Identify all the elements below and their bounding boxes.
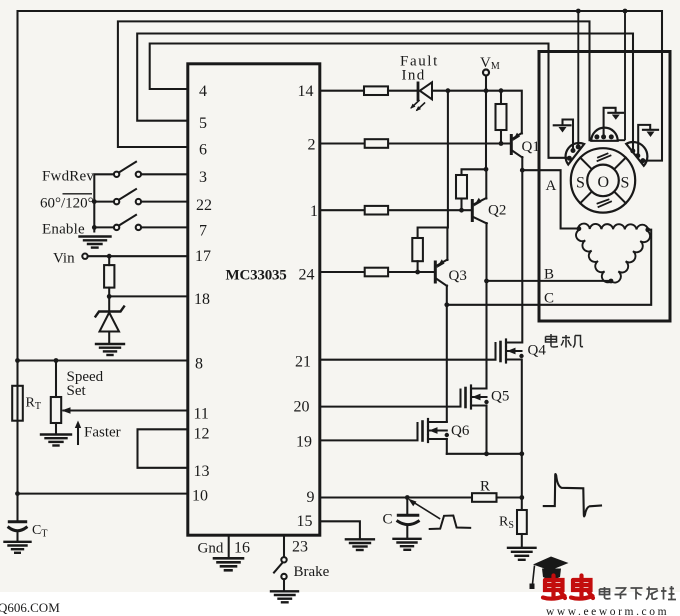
- svg-text:22: 22: [196, 197, 212, 214]
- switch Brake: [274, 557, 287, 590]
- wire Rs to ground: [521, 534, 523, 547]
- svg-text:8: 8: [195, 356, 203, 373]
- ground under CT: [5, 542, 31, 553]
- svg-text:Q1: Q1: [522, 139, 540, 155]
- ground pin 16 Gnd: [214, 558, 243, 570]
- wire pin 16 stub: [228, 536, 230, 558]
- capacitor CT: [9, 522, 26, 531]
- node delta bottom vertex: [609, 279, 614, 284]
- node Q2 feed stub: [484, 167, 489, 172]
- wire Q2 emitter up to VM stub: [485, 169, 487, 198]
- node pin10/RT-CT junction: [15, 491, 20, 496]
- node pot top junction: [54, 358, 59, 363]
- resistor RT: [12, 386, 23, 421]
- svg-text:R: R: [480, 479, 490, 495]
- svg-text:23: 23: [292, 539, 308, 556]
- switch S1 FwdRev: [114, 162, 141, 177]
- transistor Q2 PNP: [472, 198, 487, 224]
- svg-text:4: 4: [199, 83, 207, 100]
- potentiometer Speed Set: [51, 397, 61, 434]
- resistor R: [472, 493, 497, 502]
- resistor R-Q2 base pullup with stub to VM rail: [456, 169, 486, 210]
- wire pin 11 row with arrow into pot: [64, 409, 188, 411]
- wire pin 7 row right segment: [141, 226, 188, 228]
- wire pin 3 row right segment: [141, 173, 188, 175]
- ground under zener: [96, 344, 124, 355]
- wire pin 14 row resistor to LED: [388, 90, 417, 92]
- resistor R1: [365, 206, 388, 215]
- rotor inner circle: [587, 165, 619, 197]
- svg-text:Q606.COM: Q606.COM: [0, 600, 60, 615]
- wire Vref net: pin8 row to left column, top run, right drop: [18, 11, 663, 361]
- rotor outer circle: [571, 148, 635, 212]
- node Vref drop H1: [576, 9, 581, 14]
- svg-text:12: 12: [194, 426, 210, 443]
- node Q5 source-body tie: [484, 400, 488, 404]
- wire pin 23 stub: [283, 536, 285, 558]
- svg-text:16: 16: [234, 540, 250, 557]
- wire pin 21 row to Q4 gate: [320, 343, 496, 360]
- zener diode D1: [96, 296, 125, 343]
- svg-text:19: 19: [296, 434, 312, 451]
- node Q4 source-body tie: [519, 354, 523, 358]
- wire pin 4 nested loop to left hall sensor: [150, 44, 566, 158]
- svg-text:Vin: Vin: [53, 251, 75, 267]
- wire hall supply drop to H2: [624, 11, 626, 140]
- svg-text:13: 13: [194, 463, 210, 480]
- svg-text:Brake: Brake: [294, 564, 330, 580]
- terminal Vin: [82, 254, 87, 259]
- node phase B: [484, 279, 489, 284]
- wire Q1 collector down to phase A and Q4 drain: [521, 157, 523, 343]
- capacitor C timing on pin9 node: [398, 498, 419, 539]
- svg-text:7: 7: [199, 223, 207, 240]
- svg-text:24: 24: [299, 267, 315, 284]
- node Q2 pullup bottom: [459, 208, 464, 213]
- hall sensor H2 pins: [594, 134, 613, 139]
- svg-text:3: 3: [199, 169, 207, 186]
- wire hall supply drop to H1: [577, 11, 579, 147]
- svg-text:A: A: [546, 178, 557, 194]
- svg-text:Q5: Q5: [491, 389, 509, 405]
- terminal VM: [483, 70, 489, 76]
- wire pin 2 row: [320, 142, 510, 144]
- wire pin 6 nested loop to middle hall sensor: [118, 21, 590, 147]
- rotor N pole mark top: [598, 154, 611, 162]
- node pin9 capacitor tap: [405, 495, 410, 500]
- wire VM terminal down through row14 to Q2 feed stub: [485, 76, 487, 170]
- transistor Q3 PNP: [435, 259, 447, 286]
- svg-text:S: S: [576, 175, 585, 192]
- hall sensor H1 pins: [567, 144, 581, 160]
- wire VM rail row 14 LED to Q1 emitter corner: [432, 91, 522, 134]
- svg-text:www.eeworm.com: www.eeworm.com: [546, 606, 669, 616]
- resistor R-Q3 base pullup: [412, 238, 423, 272]
- svg-text:C: C: [383, 512, 393, 528]
- ground under switches: [80, 237, 111, 248]
- text labels: [192, 83, 318, 557]
- wire Q4 source down to sense rail and Rs: [521, 360, 523, 511]
- wire pin 14 row segment IC to resistor: [320, 90, 364, 92]
- arrow pointing to pin9 node: [408, 499, 440, 519]
- wire phase B from Q2/Q5 node to delta: [487, 280, 612, 282]
- wire pin 18 row: [109, 295, 188, 297]
- node phase A: [520, 168, 525, 173]
- svg-text:18: 18: [194, 291, 210, 308]
- resistor R-Q1 base pullup: [496, 91, 507, 144]
- hall sensor H3 right D-shape: [626, 142, 647, 166]
- wire pin 7 row left stub: [94, 226, 114, 228]
- wire Q3 emitter up to feed column: [446, 228, 448, 261]
- svg-text:2: 2: [308, 137, 316, 154]
- svg-text:Gnd: Gnd: [198, 541, 224, 557]
- logo 电子下载站 text: [600, 586, 677, 600]
- svg-text:20: 20: [294, 399, 310, 416]
- rotor quadrant spokes: [580, 158, 626, 204]
- wire pin 9 row: [320, 496, 472, 498]
- ground under Brake switch: [271, 591, 298, 602]
- IC U1 MC33035 body: [188, 64, 320, 535]
- wire phase C from Q3/Q6 node to delta: [447, 230, 651, 305]
- waveform trapezoid: [430, 516, 471, 530]
- svg-text:Faster: Faster: [84, 425, 121, 441]
- MOSFET Q4: [501, 340, 522, 363]
- resistor R-vin vertical: [104, 256, 114, 296]
- ground under capacitor C: [394, 539, 421, 550]
- wire pin 17 row: [88, 255, 188, 257]
- wire source sense rail: [447, 453, 522, 455]
- wire R to Rs node: [497, 496, 522, 498]
- svg-text:C: C: [544, 291, 554, 307]
- svg-text:60°/120°: 60°/120°: [40, 196, 94, 212]
- switch S2 60/120: [114, 189, 141, 204]
- node Q3 pullup bottom: [415, 270, 420, 275]
- wire pin 1 row: [320, 209, 471, 211]
- svg-text:9: 9: [307, 489, 315, 506]
- svg-text:15: 15: [297, 513, 313, 530]
- transistor Q1 PNP: [511, 133, 522, 158]
- logo graduation cap: [530, 557, 569, 590]
- node switch common 22: [92, 199, 97, 204]
- node delta top-left vertex: [577, 226, 582, 231]
- node R to Rs: [519, 495, 524, 500]
- wire pin 5 nested loop to right hall sensor: [137, 34, 633, 151]
- delta winding right side coils: [611, 231, 650, 283]
- svg-text:O: O: [598, 174, 610, 191]
- svg-text:21: 21: [295, 354, 311, 371]
- node Vref drop H2: [623, 9, 628, 14]
- arrow Faster up arrow: [75, 421, 81, 445]
- svg-text:B: B: [544, 267, 554, 283]
- hall sensor H1 left D-shape: [566, 143, 585, 165]
- wire pin 10 row: [18, 493, 188, 495]
- ground pin 15: [346, 539, 374, 550]
- wire pin 24 row: [320, 271, 434, 273]
- wire pot top lead from pin8 row: [55, 361, 57, 398]
- node rail Q5 source: [484, 451, 489, 456]
- svg-text:Enable: Enable: [42, 222, 85, 238]
- MOSFET Q5: [466, 386, 487, 409]
- svg-text:Set: Set: [67, 383, 87, 399]
- node delta top-right vertex: [645, 227, 650, 232]
- wire CT to ground: [16, 532, 18, 542]
- rotor N pole mark bottom: [598, 200, 612, 208]
- wire pin 20 row to Q5 gate: [320, 390, 461, 407]
- delta winding left side coils: [576, 230, 611, 282]
- svg-text:Ind: Ind: [402, 68, 426, 84]
- node phase C: [444, 302, 449, 307]
- hall sensor H2 ground flag: [604, 108, 623, 135]
- switch S3 Enable: [114, 215, 141, 230]
- ground under potentiometer: [41, 435, 71, 446]
- wire Vref column lower segment to CT: [16, 361, 18, 522]
- svg-text:MC33035: MC33035: [226, 268, 287, 284]
- wire pins 12-13 loop: [138, 429, 188, 468]
- wire Q2 collector down through phase B to Q5 drain: [485, 223, 487, 389]
- wire pin 19 row to Q6 gate: [320, 423, 418, 440]
- wire jog middle supply into dome: [618, 139, 625, 141]
- wire pin 15 to ground: [320, 521, 360, 538]
- svg-text:Q3: Q3: [449, 268, 467, 284]
- node Q1 pullup top: [499, 88, 504, 93]
- wire pin 22 row left stub: [94, 201, 114, 203]
- svg-text:5: 5: [199, 115, 207, 132]
- svg-text:14: 14: [298, 83, 314, 100]
- resistor R2: [365, 139, 388, 148]
- svg-text:Q6: Q6: [451, 423, 470, 439]
- LED Fault Ind: [410, 82, 432, 111]
- label motor 电机: [546, 334, 584, 348]
- hall sensor H3 ground flag: [638, 125, 658, 154]
- hall sensor H3 pins: [630, 148, 645, 163]
- waveform current spike: [544, 474, 601, 516]
- svg-text:Q4: Q4: [528, 343, 547, 359]
- svg-text:11: 11: [194, 406, 209, 423]
- motor box: [539, 52, 670, 322]
- svg-text:1: 1: [310, 203, 318, 220]
- svg-text:FwdRev: FwdRev: [42, 169, 94, 185]
- node Q1 pullup bottom: [499, 141, 504, 146]
- wire pin 22 row right segment: [141, 201, 188, 203]
- node VM rail row14: [484, 88, 489, 93]
- svg-text:17: 17: [195, 248, 211, 265]
- node rail to Rs: [519, 451, 524, 456]
- resistor R14 fault: [364, 86, 388, 95]
- resistor R24: [365, 268, 388, 277]
- node zener tap pin18: [107, 294, 112, 299]
- wire Q3 collector down through phase C to Q6 drain: [446, 286, 448, 422]
- wire pin 3 row left stub to switch: [94, 174, 114, 231]
- wire feed down to Q3 resistor stub: [418, 91, 448, 238]
- MOSFET Q6: [423, 419, 447, 442]
- wire Q5 source down to sense rail: [485, 406, 487, 454]
- node Q6 source-body tie: [445, 433, 449, 437]
- delta winding top side coils: [578, 224, 648, 230]
- node LED to Q3 feed: [446, 88, 451, 93]
- svg-text:10: 10: [192, 488, 208, 505]
- node Vin resistor tap: [107, 254, 112, 259]
- hall sensor H2 middle dome: [591, 128, 617, 141]
- hall sensor H1 ground flag: [554, 120, 573, 149]
- node pin8/Vref-RT junction: [15, 358, 20, 363]
- svg-text:Q2: Q2: [488, 203, 506, 219]
- resistor Rs: [517, 510, 527, 534]
- wire Q6 source down to sense rail: [446, 439, 448, 454]
- svg-text:S: S: [621, 175, 630, 192]
- logo 虫虫 red characters: [543, 576, 593, 599]
- wire phase A from Q1/Q4 node to delta: [522, 170, 578, 228]
- arrowhead into pot wiper: [62, 407, 71, 414]
- svg-text:6: 6: [199, 142, 207, 159]
- node switch common 7: [92, 225, 97, 230]
- ground under Rs: [508, 548, 536, 560]
